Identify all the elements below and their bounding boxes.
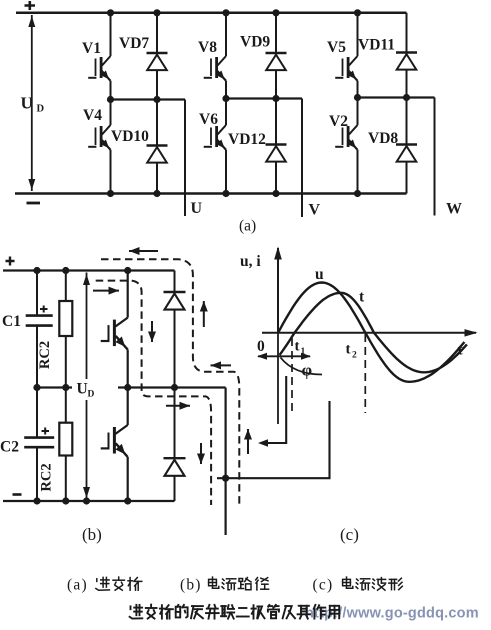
svg-text:VD9: VD9 <box>240 34 270 51</box>
transistor V2 <box>335 125 357 150</box>
resistor RC2 upper <box>59 271 72 388</box>
voltage arrow Ud (a) <box>28 15 35 191</box>
svg-text:RC2: RC2 <box>37 341 53 369</box>
transistor V8 <box>204 56 226 81</box>
wire bottom rail right corner up (a) <box>406 163 408 194</box>
transistor V5 <box>335 56 357 81</box>
curve u (c) <box>278 283 464 382</box>
node plus terminal (a) <box>25 1 36 10</box>
wire output V <box>301 99 303 218</box>
svg-text:D: D <box>88 390 95 400</box>
leader curve to phi (c) <box>281 358 323 375</box>
arrow current right (below top rail b) <box>93 290 119 292</box>
wire feedback line lower (from c) <box>217 401 330 478</box>
wire leg1 mid rail <box>111 98 186 100</box>
svg-text:D: D <box>37 104 45 115</box>
dashed line t1 (c) <box>291 338 293 413</box>
wire leg1 igbt column <box>110 13 112 56</box>
wire leg3 mid rail <box>358 96 435 98</box>
svg-text:V4: V4 <box>83 107 102 124</box>
transistor lower IGBT (b) <box>127 388 129 426</box>
node junctions leg2 <box>222 9 279 197</box>
node junctions (b) <box>33 267 229 505</box>
wire bottom rail (b) <box>3 500 175 502</box>
svg-text:(a): (a) <box>239 218 256 235</box>
diode VD8 <box>396 145 417 162</box>
capacitor C1 <box>26 271 53 388</box>
node minus terminal (b) <box>13 493 22 496</box>
diode upper (b) <box>174 271 176 293</box>
svg-text:V: V <box>309 202 321 219</box>
svg-text:W: W <box>446 201 462 218</box>
svg-text:t: t <box>346 342 351 358</box>
voltage arrow Ud (b) <box>83 273 90 500</box>
arrow current right (below mid rail b) <box>166 405 190 407</box>
diode lower-b <box>164 458 186 476</box>
svg-text:t: t <box>295 339 300 355</box>
label Ud (a) <box>21 94 45 115</box>
wire bottom dc rail (a) <box>15 192 407 195</box>
svg-text:U: U <box>191 200 203 217</box>
diode VD11 <box>396 53 417 70</box>
svg-text:V8: V8 <box>198 39 217 56</box>
svg-text:V2: V2 <box>329 113 348 130</box>
wire mid rail left segment (b) <box>34 386 73 388</box>
arrow current left (right of b mid) <box>211 364 232 366</box>
svg-text:φ: φ <box>302 361 313 380</box>
dashed line t2 (c) <box>364 334 366 413</box>
wire dashed current path inner (b) <box>96 281 211 505</box>
svg-text:V6: V6 <box>199 111 218 128</box>
svg-text:VD8: VD8 <box>368 130 398 147</box>
diode lower (b) <box>174 388 176 459</box>
svg-text:V1: V1 <box>82 40 101 57</box>
svg-text:C2: C2 <box>0 439 19 456</box>
arrow current down (beside upper igbt b) <box>151 321 153 342</box>
wire dashed current path outer (b) <box>101 259 239 504</box>
arrow current up (beside lower right path b) <box>247 429 249 454</box>
svg-text:VD12: VD12 <box>228 131 266 148</box>
node minus terminal (a) <box>27 202 41 205</box>
curve i labeled t (c) <box>280 293 467 373</box>
transistor V1 <box>88 56 110 81</box>
svg-text:VD11: VD11 <box>358 37 395 54</box>
wire leg3 diode column <box>406 70 408 98</box>
svg-text:(b): (b) <box>180 577 202 594</box>
svg-text:0: 0 <box>257 338 265 355</box>
node junctions leg3 <box>354 9 410 197</box>
svg-text:t: t <box>359 289 365 306</box>
transistor upper IGBT (b) <box>127 271 129 318</box>
svg-text:VD10: VD10 <box>111 128 149 145</box>
label t1 (c) <box>295 339 306 358</box>
svg-text:2: 2 <box>352 351 357 361</box>
axis x (c) <box>262 329 478 337</box>
wire output W <box>434 98 436 216</box>
svg-text:U: U <box>21 94 33 113</box>
axis y (c) <box>274 247 282 425</box>
wire leg3 igbt column <box>357 13 359 56</box>
diode VD9 <box>266 53 287 70</box>
wire leg2 igbt column <box>225 13 227 56</box>
caption line 2 (title) <box>130 605 143 619</box>
svg-text:V5: V5 <box>327 39 346 56</box>
svg-text:VD7: VD7 <box>119 35 149 52</box>
wire leg2 mid rail <box>226 97 302 99</box>
arrow phase phi double (c) <box>257 353 311 360</box>
capacitor C2 <box>24 388 54 502</box>
wire leg1 diode column <box>156 13 158 53</box>
node plus terminal (b) <box>6 257 15 266</box>
diode upper-b <box>164 292 186 310</box>
label t2 (c) <box>346 342 358 361</box>
arrow current left (top of b) <box>129 250 158 252</box>
wire output down from mid rail (b) <box>225 388 227 536</box>
svg-text:(c): (c) <box>313 577 334 594</box>
diode VD10 <box>147 146 168 163</box>
diode VD12 <box>266 145 287 162</box>
wire top rail (b) <box>3 269 175 271</box>
label Ud (b) <box>77 381 95 400</box>
wire output U <box>184 100 186 217</box>
wire mid rail right segment (b) <box>118 386 226 388</box>
svg-text:(a): (a) <box>67 577 88 594</box>
diode VD7 <box>147 53 168 70</box>
wire feedback line upper with arrow (from c) <box>258 376 286 447</box>
svg-text:u: u <box>315 266 324 283</box>
resistor RC2 lower <box>59 388 72 502</box>
svg-text:u, i: u, i <box>240 253 261 270</box>
svg-text:C1: C1 <box>2 313 21 330</box>
transistor V6 <box>204 125 226 150</box>
svg-text:(b): (b) <box>82 525 102 544</box>
svg-text:RC2: RC2 <box>39 463 55 491</box>
transistor V4 <box>88 125 110 150</box>
arrow current up (beside upper diode b) <box>203 301 205 327</box>
wire top dc rail (a) <box>16 12 407 15</box>
node junctions leg1 <box>107 9 161 197</box>
arrow current down (beside lower path b) <box>200 443 202 464</box>
svg-text:U: U <box>77 381 88 398</box>
svg-text:(c): (c) <box>340 525 359 544</box>
wire top rail right corner down (a) <box>406 13 408 53</box>
wire leg2 diode column <box>275 13 277 53</box>
